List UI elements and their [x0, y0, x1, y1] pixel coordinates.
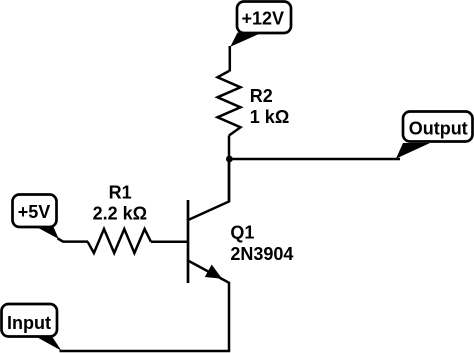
wire R2 bottom to collector bend: [228, 136, 231, 203]
+12V callout: [230, 33, 261, 47]
Output callout: [396, 143, 430, 159]
wire R1 to base: [151, 240, 188, 243]
svg-text:Input: Input: [7, 313, 51, 333]
transistor Q1 emitter: [187, 260, 229, 351]
svg-text:+5V: +5V: [18, 202, 51, 222]
node junction dot: [226, 156, 233, 163]
wire output horizontal: [229, 158, 400, 161]
svg-text:Output: Output: [409, 119, 468, 139]
svg-text:R1: R1: [109, 183, 132, 203]
Input callout: [33, 335, 62, 351]
resistor R1: [88, 229, 151, 253]
wire +5V to R1: [58, 238, 89, 241]
transistor Q1 base bar: [187, 200, 190, 283]
svg-text:+12V: +12V: [242, 8, 285, 28]
svg-text:2N3904: 2N3904: [230, 244, 293, 264]
resistor R2: [218, 71, 241, 136]
svg-text:R2: R2: [250, 86, 273, 106]
wire bottom from Input to emitter: [60, 350, 231, 353]
+5V callout: [36, 227, 59, 239]
svg-text:1 kΩ: 1 kΩ: [250, 107, 289, 127]
wire from +12V down to R2: [229, 46, 232, 72]
svg-text:2.2 kΩ: 2.2 kΩ: [93, 204, 147, 224]
svg-text:Q1: Q1: [230, 223, 254, 243]
transistor Q1 collector: [187, 159, 229, 221]
emitter arrow: [206, 267, 220, 278]
